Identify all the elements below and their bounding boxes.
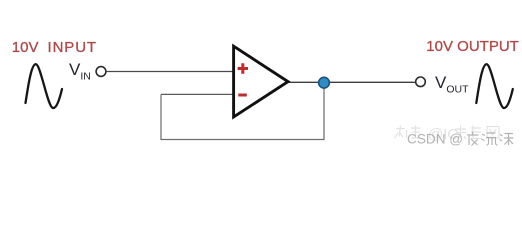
wire: op-amp output to terminal [288,81,416,83]
glyph wang [487,127,499,139]
watermark line2 CJK glyphs: ye liu bing [467,132,514,146]
svg-text:10V: 10V [12,39,39,56]
output node junction (blue dot) [319,77,330,88]
glyph hu [411,126,420,139]
output terminal [416,77,426,87]
wire: feedback loop right vertical up to output node [323,83,325,140]
glyph sheng [471,126,482,139]
op-amp + input marking [238,63,248,74]
watermark line1: zhihu @IC xianshengwang (faint gray) [395,126,500,144]
glyph zhi [395,126,407,139]
glyph liu [482,133,498,145]
input terminal [96,67,106,77]
input sine wave source [26,64,63,108]
op-amp U1 triangle [234,46,288,117]
glyph bing [500,134,514,146]
svg-text:10V OUTPUT: 10V OUTPUT [426,38,519,55]
svg-text:INPUT: INPUT [48,39,97,56]
glyph ye [467,132,479,146]
svg-text:CSDN @: CSDN @ [407,132,463,147]
glyph xian [455,126,466,140]
output sine wave [476,64,513,108]
wire: feedback loop bottom horizontal [160,139,324,141]
op-amp - input marking [238,94,247,97]
wire: inverting input from feedback [161,93,233,95]
wire: input terminal to op-amp non-inverting input [106,71,233,73]
wire: feedback loop left vertical [160,94,162,139]
